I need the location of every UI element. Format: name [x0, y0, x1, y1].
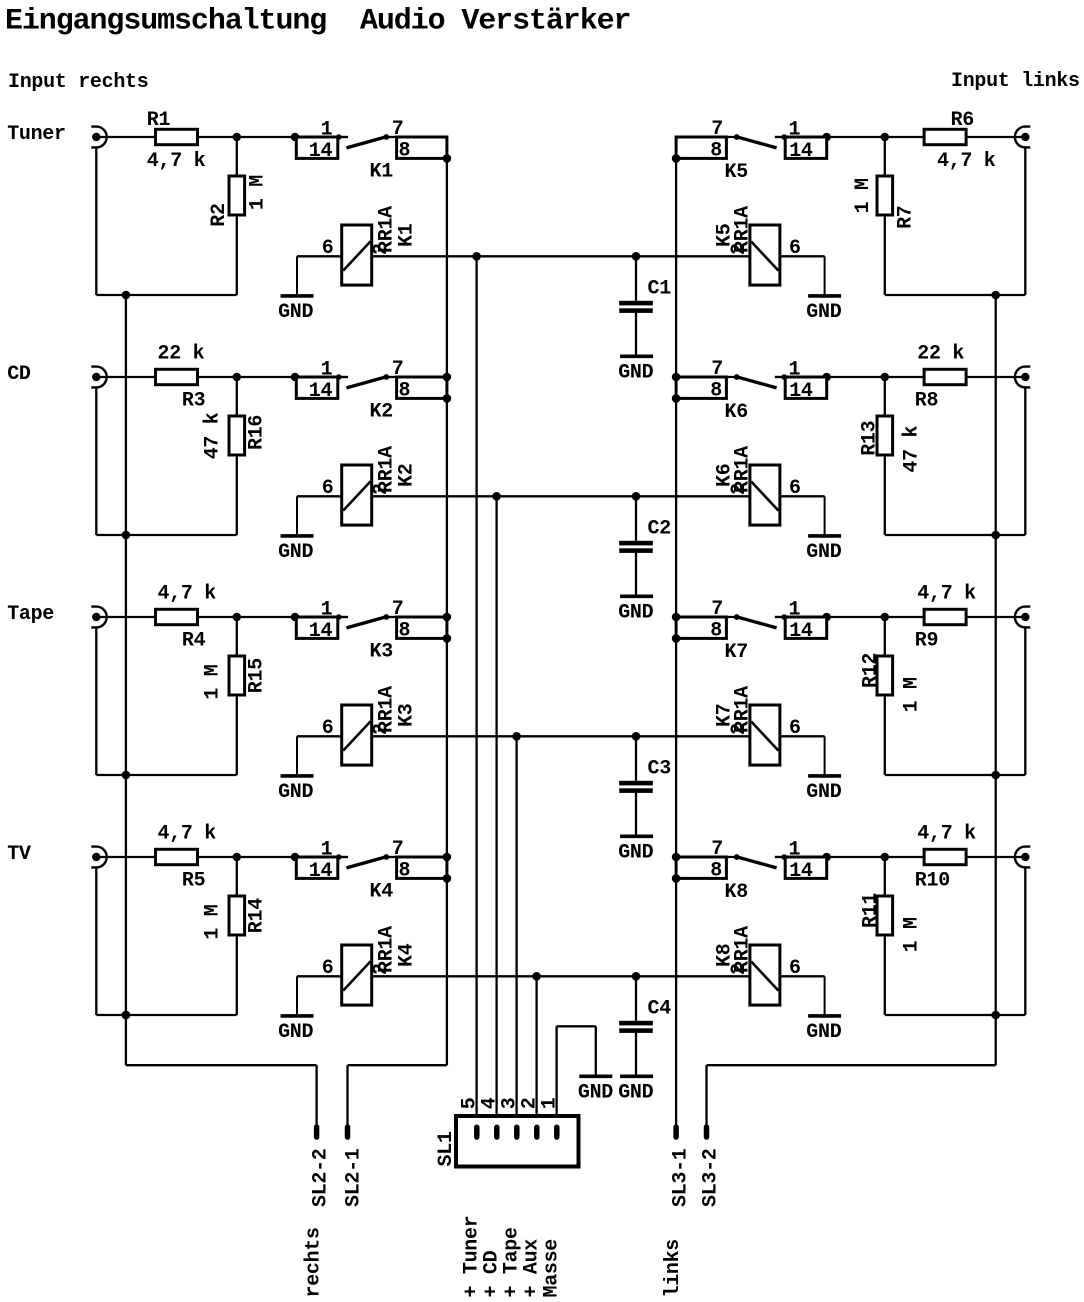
svg-text:K5: K5 — [725, 161, 748, 184]
resistor R8 — [924, 369, 966, 384]
junction — [443, 613, 452, 622]
junction — [991, 771, 1000, 780]
pin 1 label — [789, 119, 801, 142]
junction — [512, 732, 521, 741]
svg-text:6: 6 — [322, 717, 334, 740]
connector pin SL3-1 — [673, 1127, 679, 1137]
svg-text:Masse: Masse — [540, 1239, 563, 1298]
ground GND K1 coil — [281, 256, 314, 296]
capacitor junction — [632, 252, 641, 261]
svg-text:8: 8 — [710, 859, 722, 882]
label GND — [278, 301, 313, 324]
svg-text:1 M: 1 M — [852, 178, 875, 213]
label R1 — [147, 109, 171, 132]
label SL3-2 — [700, 1148, 723, 1207]
wire — [236, 617, 238, 656]
wire net K3/K7 coil — [372, 735, 750, 737]
svg-text:GND: GND — [806, 541, 841, 564]
ground GND K7 coil — [808, 736, 841, 776]
svg-text:R11: R11 — [860, 893, 883, 928]
svg-text:1 M: 1 M — [201, 664, 224, 699]
pin 2 label — [519, 1098, 542, 1110]
svg-text:C3: C3 — [648, 758, 671, 781]
subtitle Input links — [951, 70, 1080, 93]
label K1 — [395, 223, 418, 247]
svg-text:SL1: SL1 — [435, 1131, 458, 1166]
svg-text:K5: K5 — [714, 224, 737, 247]
label K7 — [714, 704, 737, 727]
svg-text:1: 1 — [321, 839, 333, 862]
resistor R7 — [877, 176, 893, 215]
ground GND K3 coil — [281, 736, 314, 776]
pin 1 stub — [775, 854, 787, 860]
label 1 M — [852, 178, 875, 213]
wire — [386, 376, 396, 378]
svg-text:6: 6 — [789, 717, 801, 740]
svg-text:K8: K8 — [714, 944, 737, 967]
pin 1 stub — [775, 134, 787, 140]
svg-text:SL2-2: SL2-2 — [310, 1148, 333, 1207]
wire — [884, 935, 886, 1015]
svg-text:14: 14 — [789, 140, 813, 163]
input jack TV links — [1015, 847, 1030, 868]
pin 3 label — [499, 1098, 522, 1110]
svg-text:Tape: Tape — [7, 603, 54, 626]
svg-text:K4: K4 — [395, 943, 418, 967]
net label + Aux — [520, 1239, 543, 1298]
junction — [532, 972, 541, 981]
svg-text:R8: R8 — [915, 390, 938, 413]
svg-text:SL2-1: SL2-1 — [343, 1148, 366, 1207]
junction — [122, 291, 131, 300]
label 1 M — [901, 677, 924, 712]
wire net K1/K5 coil — [372, 255, 750, 257]
wire — [386, 136, 396, 138]
value 4,7 k — [147, 150, 206, 173]
resistor R16 — [229, 416, 245, 455]
relay K1 contact blade — [346, 137, 386, 148]
svg-text:GND: GND — [278, 301, 313, 324]
svg-text:8: 8 — [710, 139, 722, 162]
relay K6 contact box 14 — [785, 377, 827, 398]
svg-text:14: 14 — [789, 620, 813, 643]
label RR1A — [375, 926, 398, 973]
svg-text:GND: GND — [618, 841, 653, 864]
pin 14 label — [309, 380, 333, 403]
junction — [233, 373, 242, 382]
pin 7 dot — [383, 134, 389, 140]
wire pin 6 — [297, 735, 342, 737]
label K3 — [395, 704, 418, 727]
pin 2 label — [728, 483, 751, 495]
svg-text:Tuner: Tuner — [7, 123, 66, 146]
wire — [726, 616, 736, 618]
pin 2 label — [370, 963, 393, 975]
wire — [827, 376, 924, 378]
relay K3 contact box 8 — [397, 617, 447, 638]
wire net K4/K8 coil — [372, 975, 750, 977]
connector pin SL2-2 — [314, 1127, 320, 1137]
capacitor C3 — [619, 736, 653, 834]
wire select line TV to SL1 pin 2 — [535, 976, 537, 1128]
input label Tape — [7, 603, 54, 626]
svg-text:GND: GND — [278, 781, 313, 804]
resistor R9 — [924, 609, 966, 624]
input jack Tuner links — [1015, 127, 1030, 148]
junction — [472, 252, 481, 261]
net label + Tape — [500, 1227, 523, 1298]
pin 7 dot — [383, 854, 389, 860]
pin 14 label — [309, 140, 333, 163]
svg-text:Input rechts: Input rechts — [8, 71, 148, 94]
label R4 — [182, 630, 206, 653]
svg-text:1: 1 — [321, 119, 333, 142]
wire — [966, 616, 1025, 618]
pin 6 label — [322, 477, 334, 500]
wire — [95, 387, 97, 535]
wire pin 6 — [780, 495, 825, 497]
relay K2 contact blade — [346, 377, 386, 388]
pin 6 label — [322, 957, 334, 980]
wire — [884, 695, 886, 775]
relay K3 contact blade — [346, 617, 386, 628]
svg-text:8: 8 — [710, 619, 722, 642]
wire — [1024, 387, 1026, 535]
wire — [236, 695, 238, 775]
pin 1 stub — [336, 614, 348, 620]
pin 7 label — [711, 838, 723, 861]
junction — [672, 853, 681, 862]
label RR1A — [732, 686, 755, 733]
junction — [443, 634, 452, 643]
value 4,7 k — [158, 583, 217, 606]
junction — [672, 154, 681, 163]
junction — [822, 613, 831, 622]
svg-text:1: 1 — [789, 119, 801, 142]
pin 14 label — [789, 140, 813, 163]
junction — [122, 1011, 131, 1020]
svg-text:8: 8 — [399, 859, 411, 882]
relay K4 contact box 8 — [397, 857, 447, 878]
label GND — [806, 781, 841, 804]
svg-text:47 k: 47 k — [201, 412, 224, 459]
pin 5 label — [459, 1098, 482, 1110]
pin 7 dot — [734, 134, 740, 140]
svg-text:Input links: Input links — [951, 70, 1080, 93]
junction — [492, 492, 501, 501]
wire pin 6 — [780, 735, 825, 737]
wire — [236, 377, 238, 416]
pin 7 dot — [734, 614, 740, 620]
wire — [96, 856, 155, 858]
svg-text:1 M: 1 M — [201, 904, 224, 939]
svg-text:22 k: 22 k — [917, 343, 964, 366]
wire — [726, 376, 736, 378]
resistor R4 — [156, 609, 198, 624]
label 1 M — [201, 664, 224, 699]
input label CD — [7, 363, 31, 386]
wire rail rechts switched (to SL2-1) — [446, 158, 448, 1065]
subtitle Input rechts — [8, 71, 148, 94]
wire — [885, 1014, 1026, 1016]
junction — [291, 853, 300, 862]
pin 2 label — [728, 963, 751, 975]
net label + CD — [480, 1250, 503, 1297]
label GND — [618, 1081, 653, 1104]
label R7 — [894, 205, 917, 228]
svg-text:R15: R15 — [246, 658, 269, 693]
pin 1 label — [539, 1097, 562, 1109]
wire — [726, 856, 736, 858]
label GND — [618, 361, 653, 384]
value 4,7 k — [937, 150, 996, 173]
svg-text:6: 6 — [789, 237, 801, 260]
pin 7 dot — [734, 854, 740, 860]
label GND — [806, 301, 841, 324]
pin 14 label — [309, 860, 333, 883]
svg-text:K6: K6 — [714, 464, 737, 487]
wire — [966, 856, 1025, 858]
junction — [822, 373, 831, 382]
relay K7 contact blade — [737, 617, 777, 628]
pin 1 label — [321, 359, 333, 382]
wire — [884, 377, 886, 416]
wire — [885, 294, 1026, 296]
relay K7 coil — [750, 705, 780, 765]
junction — [443, 154, 452, 163]
junction — [672, 394, 681, 403]
wire pin 6 — [297, 495, 342, 497]
wire — [95, 627, 97, 775]
label K4 — [370, 881, 394, 904]
pin 6 label — [789, 717, 801, 740]
relay K3 coil — [342, 705, 372, 765]
junction — [822, 133, 831, 142]
relay K6 contact blade — [737, 377, 777, 388]
input label Tuner — [7, 123, 66, 146]
label C2 — [648, 518, 671, 541]
wire — [386, 856, 396, 858]
pin 1 label — [789, 359, 801, 382]
ground GND K5 coil — [808, 256, 841, 296]
label 1 M — [901, 917, 924, 952]
pin 7 label — [711, 118, 723, 141]
svg-text:K1: K1 — [395, 223, 418, 247]
wire — [198, 136, 297, 138]
pin 7 label — [392, 118, 404, 141]
label RR1A — [375, 446, 398, 493]
wire — [885, 774, 1026, 776]
wire — [96, 774, 237, 776]
wire — [236, 137, 238, 176]
svg-text:CD: CD — [7, 363, 31, 386]
label K2 — [370, 401, 393, 424]
title text — [5, 5, 630, 39]
svg-text:C2: C2 — [648, 518, 671, 541]
wire — [96, 534, 237, 536]
wire to SL2-2 — [126, 1065, 317, 1128]
relay K8 contact box 14 — [785, 857, 827, 878]
wire — [95, 147, 97, 295]
svg-text:1 M: 1 M — [247, 175, 270, 210]
wire — [236, 935, 238, 1015]
svg-text:GND: GND — [278, 541, 313, 564]
wire — [884, 455, 886, 535]
junction — [443, 373, 452, 382]
label 47 k — [201, 412, 224, 459]
svg-text:R5: R5 — [182, 870, 205, 893]
svg-text:8: 8 — [399, 619, 411, 642]
label GND — [278, 1021, 313, 1044]
svg-text:R10: R10 — [915, 870, 950, 893]
svg-text:1: 1 — [789, 359, 801, 382]
svg-text:1: 1 — [539, 1097, 562, 1109]
wire — [885, 534, 1026, 536]
ground GND K2 coil — [281, 496, 314, 536]
pin 1 label — [789, 599, 801, 622]
relay K2 contact box 8 — [397, 377, 447, 398]
pin 4 label — [479, 1097, 502, 1109]
label C3 — [648, 758, 671, 781]
svg-text:K2: K2 — [395, 464, 418, 487]
input jack TV rechts — [91, 847, 106, 868]
pin 1 stub — [775, 614, 787, 620]
pin 14 label — [789, 620, 813, 643]
svg-text:4,7 k: 4,7 k — [158, 583, 217, 606]
wire bus rechts (left input common) — [125, 295, 127, 1065]
svg-text:6: 6 — [322, 477, 334, 500]
capacitor C2 — [619, 496, 653, 594]
pin 7 label — [711, 358, 723, 381]
label GND — [806, 1021, 841, 1044]
label 1 M — [247, 175, 270, 210]
label C4 — [648, 998, 672, 1021]
svg-text:K1: K1 — [370, 161, 394, 184]
capacitor C4 — [619, 976, 653, 1074]
connector SL1 pin 1 — [554, 1127, 560, 1137]
svg-text:TV: TV — [7, 843, 31, 866]
pin 8 label — [399, 379, 411, 402]
input jack CD rechts — [91, 367, 106, 388]
value 22 k — [158, 343, 205, 366]
relay K6 coil — [750, 465, 780, 525]
svg-text:8: 8 — [399, 379, 411, 402]
svg-text:22 k: 22 k — [158, 343, 205, 366]
label SL1 — [435, 1131, 458, 1166]
pin 1 stub — [336, 374, 348, 380]
svg-text:GND: GND — [618, 601, 653, 624]
label K8 — [725, 881, 748, 904]
wire select line Tuner to SL1 pin 5 — [475, 256, 477, 1128]
pin 1 label — [321, 119, 333, 142]
junction — [443, 394, 452, 403]
svg-text:K4: K4 — [370, 881, 394, 904]
label K4 — [395, 943, 418, 967]
relay K3 contact box 14 — [296, 617, 338, 638]
svg-text:1 M: 1 M — [901, 677, 924, 712]
pin 2 label — [370, 723, 393, 735]
relay K1 coil — [342, 225, 372, 285]
wire — [96, 1014, 237, 1016]
svg-text:8: 8 — [710, 379, 722, 402]
label K3 — [370, 641, 393, 664]
svg-text:47 k: 47 k — [901, 425, 924, 472]
label K8 — [714, 944, 737, 967]
connector SL1 pin 3 — [514, 1127, 520, 1137]
junction — [122, 531, 131, 540]
resistor R3 — [156, 369, 198, 384]
junction — [443, 853, 452, 862]
svg-text:4,7 k: 4,7 k — [917, 583, 976, 606]
junction — [991, 531, 1000, 540]
svg-text:K7: K7 — [725, 641, 748, 664]
capacitor junction — [632, 972, 641, 981]
junction — [122, 771, 131, 780]
connector pin SL3-2 — [704, 1127, 710, 1137]
wire select line CD to SL1 pin 4 — [495, 496, 497, 1128]
svg-text:SL3-1: SL3-1 — [669, 1148, 692, 1207]
svg-text:GND: GND — [618, 361, 653, 384]
ground GND K8 coil — [808, 976, 841, 1016]
label SL2-1 — [343, 1148, 366, 1207]
relay K7 contact box 8 — [676, 617, 726, 638]
svg-text:R4: R4 — [182, 630, 206, 653]
svg-text:K8: K8 — [725, 881, 748, 904]
pin 14 label — [309, 620, 333, 643]
label RR1A — [732, 446, 755, 493]
label GND — [806, 541, 841, 564]
label C1 — [648, 278, 672, 301]
wire — [827, 616, 924, 618]
pin 8 label — [710, 619, 722, 642]
label GND — [618, 841, 653, 864]
input jack Tape links — [1015, 607, 1030, 628]
ground GND Masse — [579, 1075, 612, 1079]
pin 6 label — [789, 957, 801, 980]
junction — [881, 853, 890, 862]
relay K5 coil — [750, 225, 780, 285]
junction — [881, 373, 890, 382]
svg-text:C4: C4 — [648, 998, 672, 1021]
svg-text:14: 14 — [309, 860, 333, 883]
svg-text:14: 14 — [309, 140, 333, 163]
svg-text:K2: K2 — [370, 401, 393, 424]
wire — [96, 294, 237, 296]
svg-text:GND: GND — [578, 1081, 613, 1104]
relay K1 contact box 14 — [296, 137, 338, 158]
label R3 — [182, 390, 205, 413]
pin 7 label — [392, 358, 404, 381]
svg-text:GND: GND — [278, 1021, 313, 1044]
connector pin SL2-1 — [345, 1127, 351, 1137]
svg-text:14: 14 — [309, 380, 333, 403]
pin 2 label — [728, 723, 751, 735]
resistor R5 — [156, 849, 198, 864]
wire net K2/K6 coil — [372, 495, 750, 497]
pin 1 stub — [336, 134, 348, 140]
pin 8 label — [710, 859, 722, 882]
value 4,7 k — [917, 583, 976, 606]
pin 14 label — [789, 860, 813, 883]
junction — [443, 874, 452, 883]
relay K4 coil — [342, 945, 372, 1005]
wire — [884, 617, 886, 656]
resistor R10 — [924, 849, 966, 864]
svg-text:14: 14 — [309, 620, 333, 643]
pin 2 label — [728, 243, 751, 255]
svg-text:4,7 k: 4,7 k — [147, 150, 206, 173]
svg-text:K6: K6 — [725, 401, 748, 424]
